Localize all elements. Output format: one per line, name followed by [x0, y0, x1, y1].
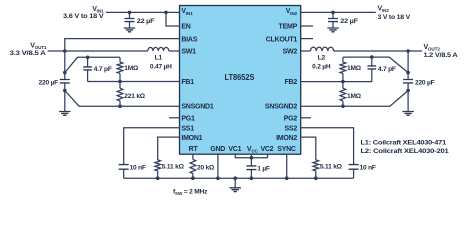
value label 10 nF (C9): [360, 165, 376, 172]
svg-text:3 V to 18 V: 3 V to 18 V: [378, 14, 411, 21]
wire ground rail bottom: [124, 177, 354, 179]
svg-text:0.2 µH: 0.2 µH: [312, 63, 331, 70]
svg-text:SW1: SW1: [181, 49, 196, 56]
svg-text:1 µF: 1 µF: [257, 165, 270, 172]
wire BIAS to VOUT1 rail: [65, 39, 180, 51]
svg-text:TEMP: TEMP: [279, 24, 298, 31]
pin label SNSGND1: [181, 104, 213, 111]
svg-text:EN: EN: [181, 24, 190, 31]
wire VC1 to VCC: [235, 154, 251, 158]
svg-text:4.7 pF: 4.7 pF: [378, 66, 396, 73]
capacitor C7 220uF output 2: [403, 80, 413, 92]
svg-text:L2: Coilcraft XEL4030-201: L2: Coilcraft XEL4030-201: [361, 148, 450, 155]
node junction VIN1/C-in1: [128, 11, 132, 15]
value label 220 uF (C7): [415, 80, 435, 87]
wire CLKOUT1 stub: [301, 38, 313, 40]
svg-text:IMON2: IMON2: [276, 135, 297, 142]
svg-text:FB2: FB2: [285, 79, 298, 86]
svg-text:CLKOUT1: CLKOUT1: [266, 36, 298, 43]
net label VIN1: [92, 6, 104, 14]
wire C-out1 to ground: [64, 91, 66, 112]
svg-text:PG2: PG2: [284, 116, 298, 123]
pin label CLKOUT1: [266, 36, 298, 43]
value label 4.7 pF (C8): [378, 66, 396, 73]
inductor L1 0.47uH: [148, 47, 169, 51]
wire SW2 to L2: [301, 50, 311, 52]
wire L2 to VOUT2: [334, 50, 422, 52]
value label 5.11 kohm (R3): [162, 163, 185, 170]
net label 3 V to 18 V: [378, 14, 411, 21]
node junction VCC/VC1/VC2: [250, 156, 254, 160]
svg-text:SS1: SS1: [181, 125, 194, 132]
svg-text:SW2: SW2: [283, 49, 298, 56]
node junction rail/SYNC: [285, 176, 289, 180]
op-amp U1 LT8652S body: [180, 6, 301, 155]
ground below C-out1: [59, 112, 70, 116]
value label 0.47 uH: [150, 63, 172, 70]
pin label TEMP: [279, 24, 298, 31]
net label VOUT2: [424, 44, 441, 52]
pin label SS2: [285, 125, 298, 132]
svg-text:5.11 kΩ: 5.11 kΩ: [162, 163, 185, 170]
wire VOUT1 column to C-out1: [64, 51, 66, 79]
pin label VC2: [260, 146, 273, 153]
capacitor C1 22uF input 1: [125, 12, 135, 27]
node junction rail/ground stem: [233, 176, 237, 180]
value label 4.7 pF (C3): [94, 66, 112, 73]
pin label PG1: [181, 116, 195, 123]
node junction rail/C5: [250, 176, 254, 180]
pin label VIN2: [286, 8, 298, 16]
svg-text:FB1: FB1: [181, 79, 194, 86]
value label 1M ohm (R1): [124, 65, 139, 72]
svg-text:L2: L2: [318, 54, 326, 61]
node junction rail/R7: [314, 176, 318, 180]
value label 1M ohm (R5): [347, 65, 362, 72]
pin label SYNC: [277, 146, 296, 153]
resistor R2 221k bottom divider 1: [117, 82, 123, 107]
net label 3.3 V/8.5 A: [10, 50, 47, 57]
svg-text:4.7 pF: 4.7 pF: [94, 66, 112, 73]
net label 3.6 V to 18 V: [63, 13, 104, 20]
svg-text:3.6 V to 18 V: 3.6 V to 18 V: [63, 13, 104, 20]
wire EN stub from VIN1: [166, 12, 180, 26]
svg-text:5.11 kΩ: 5.11 kΩ: [320, 163, 343, 170]
svg-text:VC2: VC2: [260, 146, 273, 153]
pin label IMON2: [276, 135, 297, 142]
node junction rail/RT: [191, 176, 195, 180]
wire RT to R4: [192, 154, 194, 159]
svg-text:SNSGND2: SNSGND2: [265, 104, 297, 111]
pin label SS1: [181, 125, 194, 132]
node junction divider top / C3: [86, 56, 90, 60]
node junction C-out1 bottom sense: [63, 89, 67, 93]
svg-text:SYNC: SYNC: [277, 146, 296, 153]
svg-text:L1: L1: [155, 54, 163, 61]
svg-text:VOUT1: VOUT1: [30, 43, 47, 51]
svg-text:SNSGND1: SNSGND1: [181, 104, 213, 111]
svg-text:VIN2: VIN2: [378, 6, 390, 14]
wire sense diagonal to divider top: [65, 57, 120, 72]
node junction VIN1/EN: [164, 11, 168, 15]
capacitor C6 22uF input 2: [328, 12, 338, 27]
wire C-out2 to ground: [407, 91, 409, 112]
value label 0.2 uH: [312, 63, 331, 70]
wire IMON2 to R7: [301, 137, 316, 160]
wire FB1 rail: [88, 81, 180, 83]
wire VC2 to VCC: [251, 154, 267, 158]
node junction VOUT2/C-out2: [406, 49, 410, 53]
svg-text:3.3 V/8.5 A: 3.3 V/8.5 A: [10, 50, 47, 57]
value label 5.11 kohm (R7): [320, 163, 343, 170]
wire VIN2 from U1: [301, 11, 376, 13]
wire SS2 to C9: [301, 128, 354, 165]
net label 1.2 V/8.5 A: [424, 52, 458, 59]
pin label VC1: [228, 146, 241, 153]
pin label IMON1: [181, 135, 202, 142]
svg-text:1.2 V/8.5 A: 1.2 V/8.5 A: [424, 52, 458, 59]
wire SS1 to C4: [124, 128, 180, 165]
pin label GND: [210, 146, 225, 153]
node junction FB1/R2: [118, 80, 122, 84]
svg-text:VOUT2: VOUT2: [424, 44, 441, 52]
pin label FB2: [285, 79, 298, 86]
pin label SNSGND2: [265, 104, 297, 111]
value label 22 uF (C6): [340, 18, 358, 25]
pin label EN: [181, 24, 190, 31]
node junction C-out2 top sense: [406, 71, 410, 75]
pin label VCC: [247, 146, 259, 154]
value label 20 kohm (R4): [197, 165, 215, 172]
pin label RT: [189, 146, 199, 153]
pin label BIAS: [181, 36, 197, 43]
node junction C-out1 top sense: [63, 71, 67, 75]
ground below C-out2: [402, 112, 413, 116]
resistor R4 20k RT: [190, 160, 196, 179]
value label 22 uF (C1): [137, 18, 155, 25]
svg-text:22 µF: 22 µF: [137, 18, 155, 25]
svg-text:IMON1: IMON1: [181, 135, 202, 142]
value label 1 uF (C5): [257, 165, 270, 172]
pin label PG2: [284, 116, 298, 123]
resistor R3 5.11k IMON1: [155, 160, 161, 178]
node junction rail/R3: [156, 176, 160, 180]
wire GND pin to rail: [217, 154, 219, 178]
label fsw = 2 MHz: [173, 188, 208, 196]
value label L2: [318, 54, 326, 61]
svg-text:1MΩ: 1MΩ: [124, 65, 139, 72]
value label 220 uF (C2): [39, 80, 59, 87]
svg-text:BIAS: BIAS: [181, 36, 197, 43]
ground symbol main: [230, 178, 241, 191]
node junction divider top 2 / C8: [370, 55, 374, 59]
svg-text:10 nF: 10 nF: [360, 165, 376, 172]
svg-text:GND: GND: [210, 146, 225, 153]
svg-text:VC1: VC1: [228, 146, 241, 153]
value label L1: [155, 54, 163, 61]
resistor R6 1M bottom divider 2: [340, 82, 346, 107]
resistor R7 5.11k IMON2: [313, 160, 319, 178]
svg-text:221 kΩ: 221 kΩ: [124, 93, 146, 100]
node junction rail/GND: [216, 176, 220, 180]
node junction VIN2/C-in2: [331, 11, 335, 15]
svg-text:1MΩ: 1MΩ: [347, 93, 362, 100]
wire VOUT2 column to C-out2: [407, 51, 409, 79]
pin label FB1: [181, 79, 194, 86]
svg-text:22 µF: 22 µF: [340, 18, 358, 25]
wire VCC pin down: [250, 154, 252, 166]
node junction VOUT1/BIAS/C-out1: [63, 49, 67, 53]
pin label SW2: [283, 49, 298, 56]
svg-text:0.47 µH: 0.47 µH: [150, 63, 172, 70]
node junction SNSGND1/R2: [118, 104, 122, 108]
wire IMON1 to R3: [158, 137, 180, 160]
note L2 Coilcraft: [361, 148, 450, 155]
wire PG1 stub: [169, 117, 180, 119]
pin label VIN1: [181, 8, 193, 16]
wire FB2 rail: [301, 81, 372, 83]
wire SNSGND2 with kelvin diagonal: [301, 91, 408, 107]
note L1 Coilcraft: [361, 140, 447, 147]
U1 part number label LT8652S: [225, 73, 256, 82]
net label VOUT1: [30, 43, 47, 51]
svg-text:1MΩ: 1MΩ: [347, 65, 362, 72]
svg-text:10 nF: 10 nF: [130, 165, 146, 172]
svg-text:PG1: PG1: [181, 116, 195, 123]
wire SNSGND1 with kelvin diagonal: [65, 91, 180, 107]
wire sense diagonal to divider top 2: [343, 57, 408, 73]
pin label SW1: [181, 49, 196, 56]
resistor R5 1M top divider 2: [340, 57, 346, 82]
capacitor C8 4.7pF feedforward 2: [368, 57, 377, 82]
capacitor C3 4.7pF feedforward 1: [83, 57, 92, 81]
svg-text:RT: RT: [189, 146, 199, 153]
node junction FB2/R6: [341, 80, 345, 84]
wire TEMP stub: [301, 25, 313, 27]
svg-text:L1: Coilcraft XEL4030-471: L1: Coilcraft XEL4030-471: [361, 140, 447, 147]
node junction C-out2 bottom sense: [406, 89, 410, 93]
capacitor C4 10nF soft-start 1: [119, 165, 129, 179]
svg-text:20 kΩ: 20 kΩ: [197, 165, 215, 172]
node junction SNSGND2/R6: [341, 104, 345, 108]
svg-text:220 µF: 220 µF: [415, 80, 435, 87]
ground below C1: [124, 28, 135, 32]
capacitor C9 10nF soft-start 2: [349, 165, 359, 179]
capacitor C5 1uF VCC: [246, 166, 256, 178]
svg-text:SS2: SS2: [285, 125, 298, 132]
value label 1M ohm (R6): [347, 93, 362, 100]
capacitor C2 220uF output 1: [60, 80, 70, 92]
wire PG2 stub: [301, 117, 311, 119]
svg-text:220 µF: 220 µF: [39, 80, 59, 87]
inductor L2 0.2uH: [311, 47, 334, 51]
value label 221 kohm (R2): [124, 93, 146, 100]
wire VIN1 to U1: [106, 11, 180, 13]
ground below C6: [327, 28, 338, 32]
value label 10 nF (C4): [130, 165, 146, 172]
wire L1 to SW1: [169, 50, 180, 52]
wire SYNC to rail: [286, 154, 288, 178]
resistor R1 1M top divider 1: [117, 57, 123, 81]
net label VIN2: [378, 6, 390, 14]
svg-text:fSW = 2 MHz: fSW = 2 MHz: [173, 188, 208, 196]
svg-text:LT8652S: LT8652S: [225, 73, 256, 82]
wire VOUT1 to L1: [48, 50, 148, 52]
